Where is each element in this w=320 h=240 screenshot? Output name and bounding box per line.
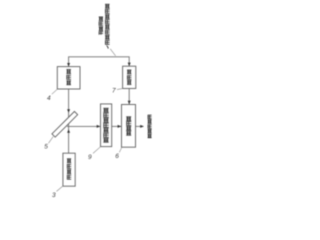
leader + numeral 9 for box U4 xyxy=(93,147,100,154)
wire W1 top signal wire from above box1 to above box2 xyxy=(69,57,130,67)
svg-text:9: 9 xyxy=(88,154,92,161)
wire W6 output from box3 xyxy=(136,125,144,127)
top label text column A (main, right col, 8 chars + paren hook) xyxy=(105,4,110,48)
arrowhead down on beam from box1 to mirror xyxy=(67,109,70,113)
svg-text:7: 7 xyxy=(112,88,116,95)
leader + numeral 7 for box U2 xyxy=(117,89,122,90)
arrowhead output right of box3 xyxy=(140,125,144,128)
leader from top label to wire W1 xyxy=(110,49,115,56)
box U1 top-left unit xyxy=(57,67,80,89)
wire W5 from box4 to box3 xyxy=(112,125,121,127)
arrowhead into box3 left xyxy=(118,125,122,128)
svg-text:6: 6 xyxy=(115,153,119,160)
mirror 5 (beam splitter, tilted rectangle) xyxy=(52,111,78,137)
arrowhead up on beam from box5 into mirror xyxy=(67,129,70,133)
text in box U3 (3 kanji, vertical, centered) xyxy=(126,117,131,136)
text in box U5 (4 kanji, vertical) xyxy=(67,159,71,179)
wire W4 from mirror to box4 xyxy=(67,125,100,127)
arrowhead into box1 top xyxy=(67,63,70,67)
arrowhead into box2 top xyxy=(128,63,131,67)
leader + numeral 3 for box U5 xyxy=(57,186,63,191)
box U5 bottom light source unit xyxy=(63,153,75,186)
text in box U1 (3 kanji, vertical) xyxy=(66,70,71,85)
svg-text:4: 4 xyxy=(47,95,51,102)
text in box U2 (3 kanji, vertical) xyxy=(127,70,131,85)
output label text column (right of output arrow, 5 chars) xyxy=(148,115,152,138)
box U4 center tall unit xyxy=(101,104,112,147)
leader + numeral 4 for box U1 xyxy=(52,89,58,94)
arrowhead into box3 top xyxy=(128,101,131,105)
top label text column B (left col, 4 chars) xyxy=(99,17,103,35)
wire W3 vertical beam axis from box1 through mirror to box5 xyxy=(68,89,70,153)
box U3 right tall unit xyxy=(122,105,136,148)
box U2 top-right unit xyxy=(123,66,136,88)
leader + numeral 5 for mirror xyxy=(49,137,54,144)
leader + numeral 6 for box U3 xyxy=(119,147,122,152)
arrowhead into box4 left xyxy=(97,125,101,128)
text in box U4 (7 kanji, vertical) xyxy=(103,108,108,142)
wire W2 from box2 down to box3 xyxy=(128,89,130,105)
svg-text:3: 3 xyxy=(52,192,56,199)
svg-text:5: 5 xyxy=(44,144,48,151)
